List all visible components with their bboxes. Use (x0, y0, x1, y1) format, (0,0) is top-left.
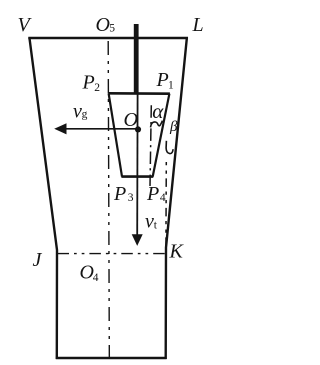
centerline O5-O4 (vertical dash-dot-dot axis) (108, 41, 109, 363)
cup left wall (109, 93, 122, 176)
alpha angle curly mark (151, 121, 163, 128)
cup right wall (153, 94, 170, 177)
svg-text:O: O (80, 262, 94, 284)
svg-text:4: 4 (160, 192, 166, 204)
vg arrowhead (54, 123, 66, 134)
cup bottom P3-P4 (121, 175, 153, 178)
cup top rim P2-P1 (108, 92, 170, 95)
svg-text:P: P (156, 69, 169, 91)
svg-text:4: 4 (93, 272, 99, 284)
svg-text:P: P (146, 183, 159, 205)
svg-text:O: O (96, 14, 110, 36)
vg arrow line (66, 128, 137, 130)
node O (dot) (135, 126, 141, 132)
vessel top edge V-L (28, 37, 188, 39)
vessel left wall (slant V to J, then vertical) (29, 38, 57, 360)
svg-text:1: 1 (168, 79, 174, 91)
svg-text:P: P (113, 183, 126, 205)
alpha reference dash-dot line (150, 105, 151, 186)
vessel right wall (slant L to K, then vertical) (166, 38, 187, 360)
svg-text:2: 2 (94, 82, 100, 94)
svg-text:α: α (152, 99, 164, 123)
svg-text:5: 5 (109, 23, 115, 35)
svg-text:3: 3 (128, 192, 134, 204)
rod axis line through O down to vt arrow (136, 94, 138, 236)
rod (thick bar) (134, 24, 139, 94)
svg-text:g: g (82, 109, 88, 121)
beta angle curly mark (166, 141, 173, 154)
svg-text:J: J (33, 249, 43, 271)
svg-text:K: K (169, 241, 185, 263)
beta reference dash-dot line (165, 162, 167, 250)
svg-text:O: O (124, 109, 138, 131)
svg-text:v: v (145, 211, 154, 233)
vt arrowhead (132, 234, 143, 246)
vessel bottom edge (56, 357, 167, 359)
svg-text:P: P (82, 72, 95, 94)
JK horizontal dash-dot line (58, 253, 166, 255)
svg-text:β: β (169, 119, 178, 135)
svg-text:L: L (192, 14, 204, 36)
